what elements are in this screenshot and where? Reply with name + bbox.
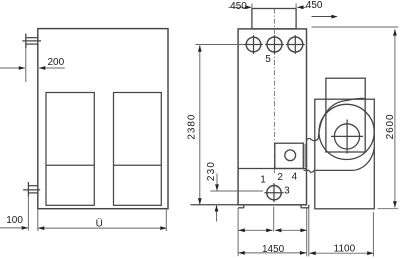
svg-text:5: 5 [265, 54, 271, 65]
svg-text:Ü: Ü [96, 217, 103, 229]
svg-text:4: 4 [292, 171, 298, 182]
svg-text:1100: 1100 [334, 243, 356, 254]
svg-text:1: 1 [260, 175, 266, 186]
svg-text:450: 450 [306, 0, 323, 11]
svg-text:2: 2 [277, 172, 283, 183]
svg-text:100: 100 [6, 215, 23, 226]
svg-text:1450: 1450 [262, 244, 285, 255]
svg-text:450: 450 [230, 1, 247, 12]
svg-text:200: 200 [47, 57, 64, 68]
svg-text:230: 230 [206, 162, 217, 181]
svg-text:2380: 2380 [187, 114, 198, 139]
svg-text:2600: 2600 [385, 114, 396, 139]
svg-text:3: 3 [284, 185, 290, 196]
